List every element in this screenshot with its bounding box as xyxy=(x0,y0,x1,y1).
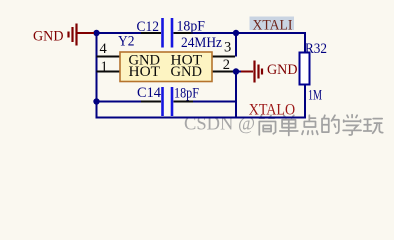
svg-text:18pF: 18pF xyxy=(174,86,199,102)
svg-text:CSDN @: CSDN @ xyxy=(184,113,255,134)
svg-text:GND: GND xyxy=(267,62,298,78)
svg-text:R32: R32 xyxy=(305,41,327,57)
svg-text:4: 4 xyxy=(100,41,108,57)
svg-text:XTALO: XTALO xyxy=(249,101,295,118)
svg-text:18pF: 18pF xyxy=(177,19,206,35)
svg-text:1: 1 xyxy=(101,59,108,75)
svg-text:HOT: HOT xyxy=(129,64,161,80)
svg-text:GND: GND xyxy=(171,64,203,80)
svg-text:24MHz: 24MHz xyxy=(181,35,222,51)
svg-text:3: 3 xyxy=(224,39,231,55)
svg-text:C14: C14 xyxy=(137,85,161,101)
svg-text:Y2: Y2 xyxy=(118,34,135,50)
svg-text:XTALI: XTALI xyxy=(253,17,293,33)
svg-text:1M: 1M xyxy=(308,88,322,104)
svg-text:GND: GND xyxy=(33,29,64,45)
svg-text:C12: C12 xyxy=(137,19,160,35)
svg-text:2: 2 xyxy=(223,57,230,73)
